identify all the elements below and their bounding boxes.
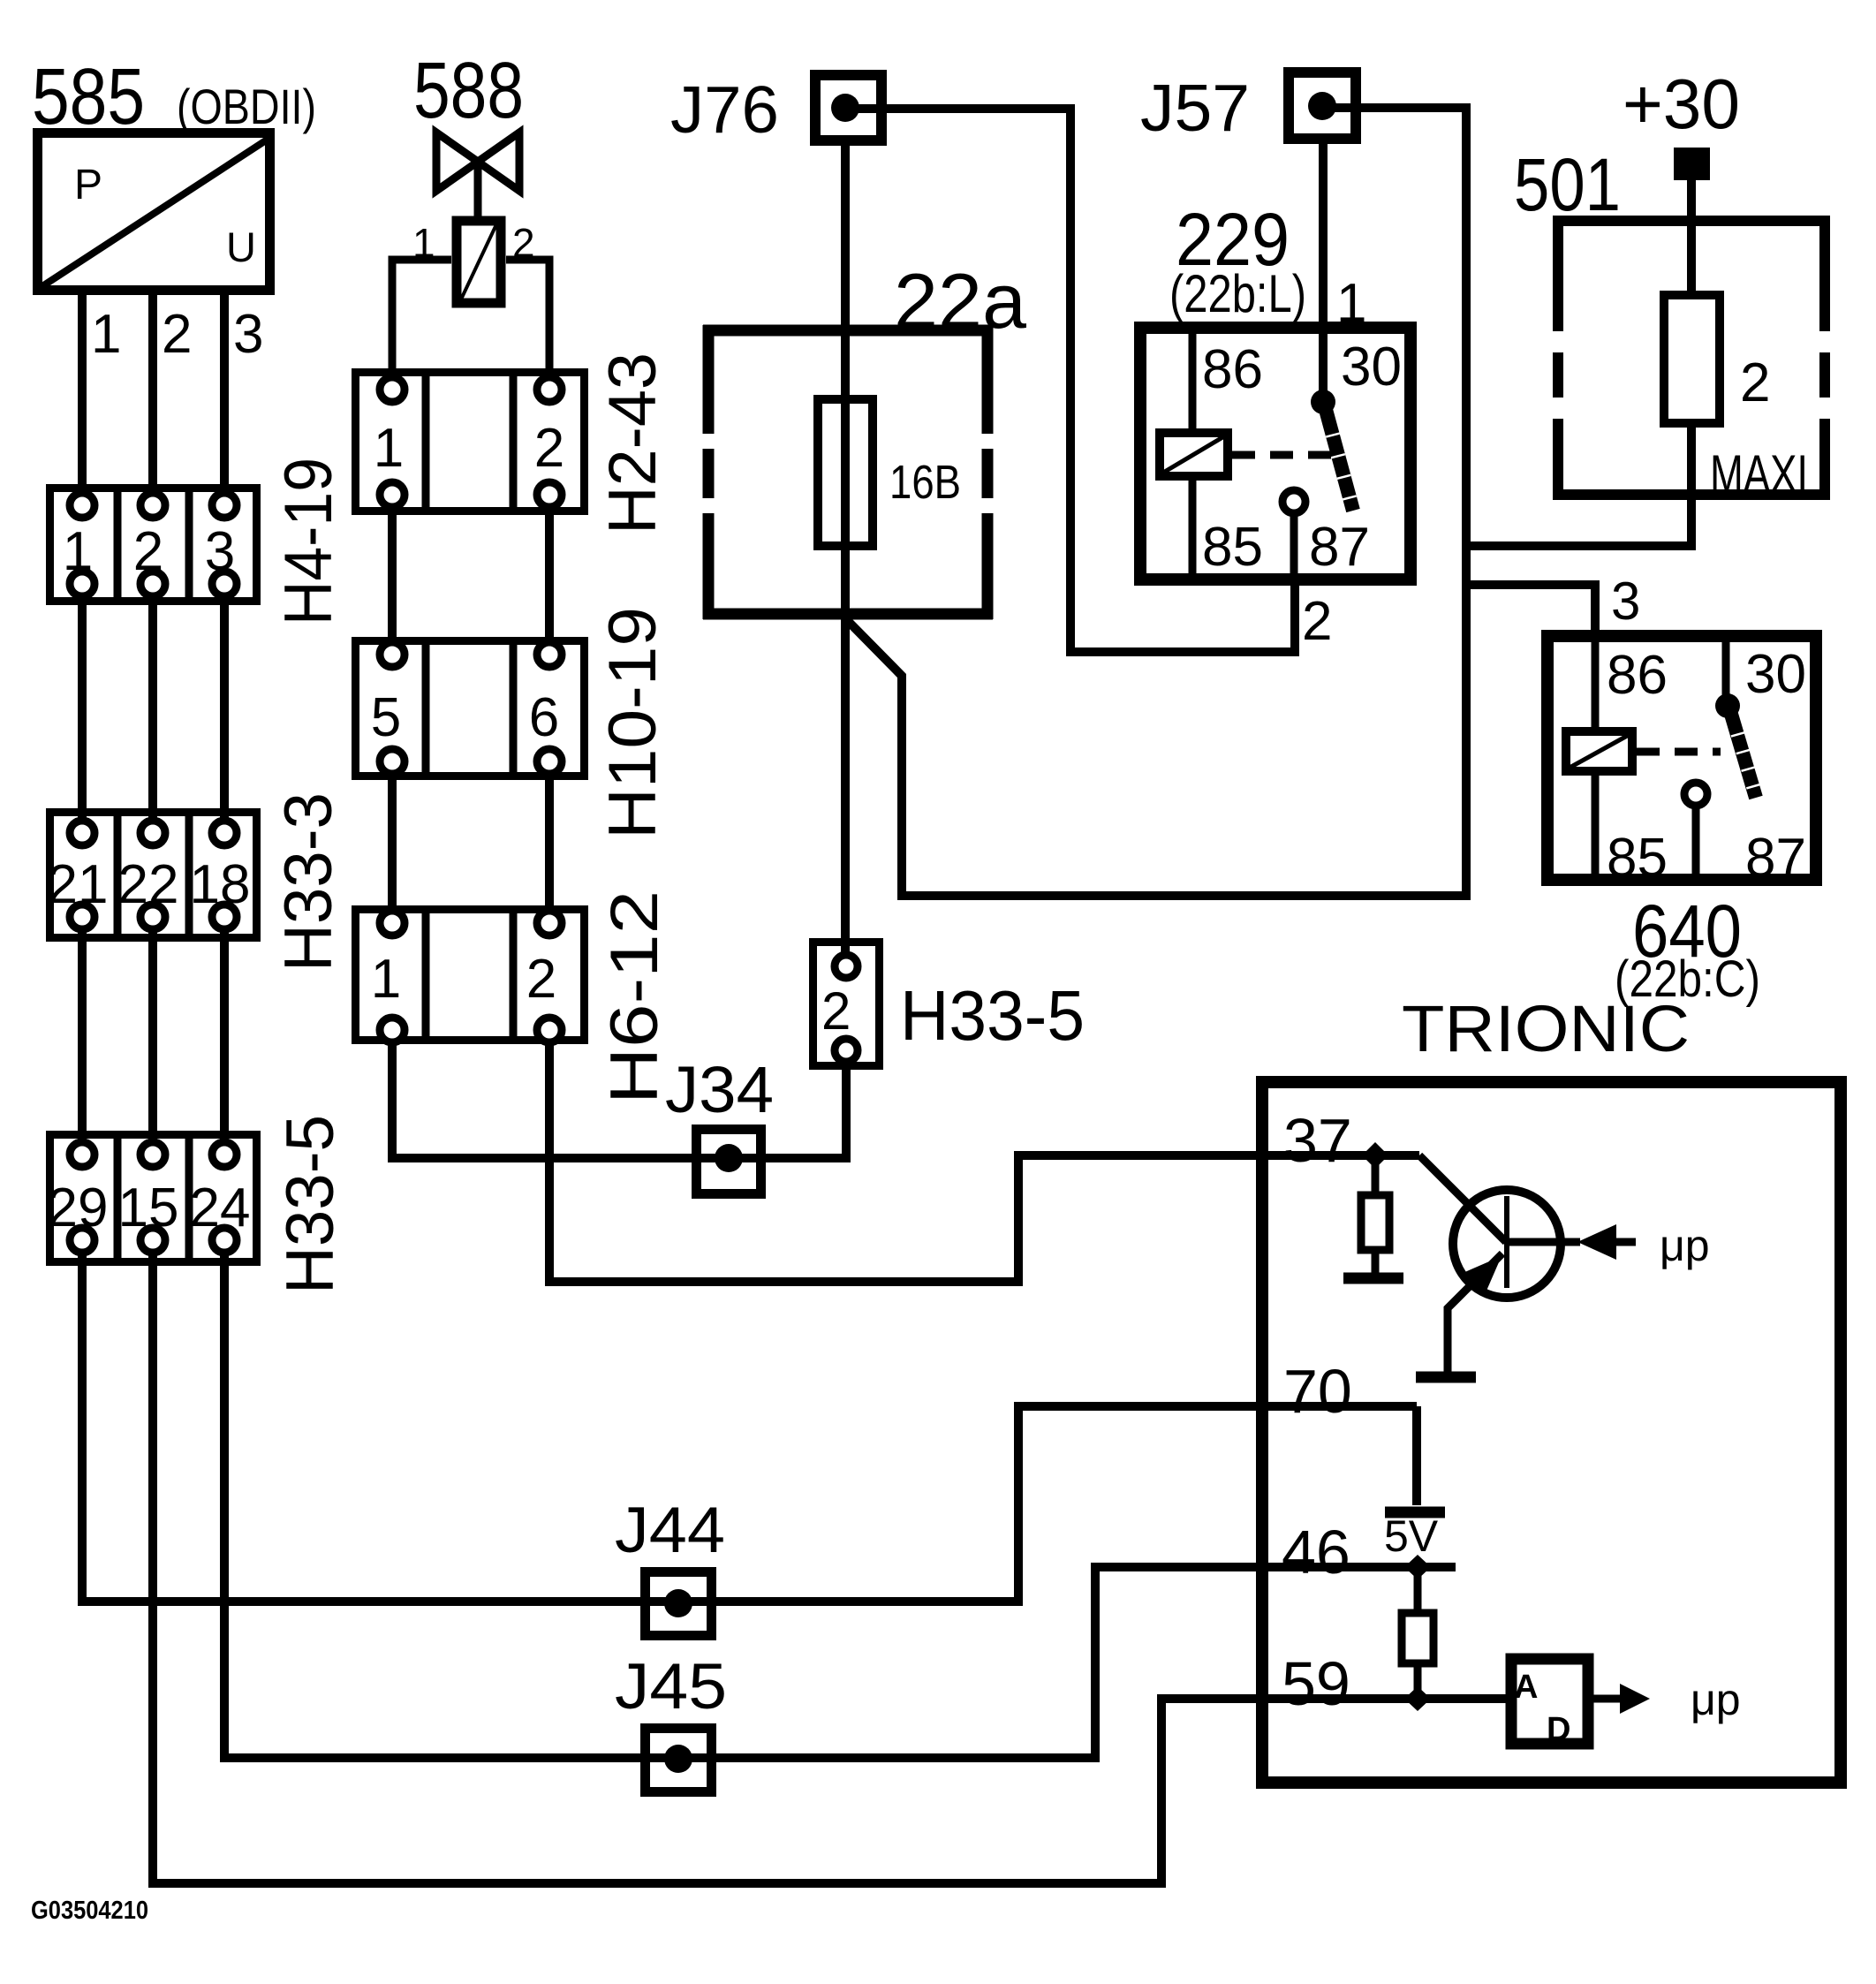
port circles H33-5 single xyxy=(835,955,858,1062)
resistor R1 (base pull) xyxy=(1361,1155,1389,1273)
svg-text:86: 86 xyxy=(1202,339,1263,400)
relay 229 coil wire 85 xyxy=(1189,476,1197,579)
svg-text:H4-19: H4-19 xyxy=(271,458,346,625)
svg-text:2: 2 xyxy=(526,949,556,1010)
connector H33-3 xyxy=(48,808,257,942)
junction J34 xyxy=(697,1130,761,1194)
relay 229 wire 87 to box edge xyxy=(1290,513,1298,579)
svg-text:87: 87 xyxy=(1745,828,1806,889)
port circles H6-12 xyxy=(380,911,562,1042)
svg-text:588: 588 xyxy=(413,47,524,135)
wire H4-19.1 to H33-3.21 xyxy=(78,584,87,833)
fuse holder 501 box xyxy=(1553,216,1830,500)
connector H6-12 xyxy=(356,905,585,1044)
transistor Q1 emitter wire with arrow xyxy=(1448,1253,1502,1372)
wire branch to fuse 501 xyxy=(1466,497,1691,546)
svg-text:30: 30 xyxy=(1745,644,1806,705)
resistor R2 (pullup to 5V) xyxy=(1402,1567,1433,1699)
solenoid valve 588 valve symbol xyxy=(436,133,519,221)
wire H6-12.2 to TRIONIC 37 xyxy=(549,1030,1419,1282)
relay 229 contact 30 xyxy=(1311,390,1335,414)
relay 640 box xyxy=(1547,636,1816,880)
wire branch to relay 640 pin 3 xyxy=(1466,585,1595,636)
wire H6-12.1 to J34 to H33-5.2 xyxy=(392,1030,846,1158)
svg-text:1: 1 xyxy=(374,418,404,479)
svg-text:H6-12: H6-12 xyxy=(597,890,672,1104)
wire fuse 501 down xyxy=(1687,423,1696,546)
wire J76 to relay 229 pin 87 xyxy=(845,109,1295,652)
junction J57 xyxy=(1289,72,1356,139)
svg-text:85: 85 xyxy=(1202,517,1263,578)
wire H2-43.2 to H10-19.6 xyxy=(545,495,554,655)
relay 229 coil wire 86 xyxy=(1189,328,1197,433)
connector H4-19 xyxy=(50,484,257,605)
port circles H33-3 xyxy=(70,821,237,929)
svg-text:87: 87 xyxy=(1309,517,1370,578)
ground (R1) xyxy=(1343,1273,1403,1284)
wire H2-43.1 to H10-19.5 xyxy=(388,495,397,655)
svg-text:2: 2 xyxy=(534,418,564,479)
wire 585 pin2 to H4-19 xyxy=(148,295,157,505)
svg-text:1: 1 xyxy=(91,304,121,365)
relay 640 switch feed 30 xyxy=(1722,636,1730,701)
fuse 16B element xyxy=(818,399,873,546)
svg-text:2: 2 xyxy=(1302,591,1332,652)
svg-text:μp: μp xyxy=(1660,1221,1710,1270)
junction J44 xyxy=(646,1572,712,1636)
wire H4-19.3 to H33-3.18 xyxy=(220,584,229,833)
relay 640 wire 87 to box edge xyxy=(1692,806,1700,880)
svg-text:5V: 5V xyxy=(1384,1511,1439,1561)
svg-text:H33-5: H33-5 xyxy=(900,976,1085,1055)
wire H10-19.6 to H6-12.2 xyxy=(545,761,554,923)
svg-text:5: 5 xyxy=(371,687,401,748)
relay 640 dashed actuator link xyxy=(1637,748,1721,756)
relay 229 switch arm xyxy=(1325,406,1357,511)
connector H10-19 xyxy=(356,637,585,780)
pressure sensor 585 body xyxy=(38,133,270,291)
A/D converter U1 xyxy=(1511,1659,1588,1748)
relay 229 contact 87 xyxy=(1282,490,1305,513)
wire H33-3.21 to H33-5.29 xyxy=(78,917,87,1155)
wire H33-3.22 to H33-5.15 xyxy=(148,917,157,1155)
svg-text:2: 2 xyxy=(1740,352,1770,413)
wire 59 to A/D xyxy=(1256,1694,1511,1703)
A/D output arrow to microprocessor xyxy=(1588,1684,1650,1714)
wire 588 pin1 to H2-43.1 xyxy=(392,260,451,390)
port circles H10-19 xyxy=(380,642,562,774)
svg-text:3: 3 xyxy=(1611,572,1640,631)
relay 229 dashed actuator link xyxy=(1232,451,1335,459)
relay 640 contact 30 xyxy=(1715,693,1740,718)
svg-text:G03504210: G03504210 xyxy=(31,1897,148,1925)
connector H33-5 (3-pole) xyxy=(48,1131,257,1266)
svg-text:P: P xyxy=(74,162,102,208)
ground (pin 70) xyxy=(1385,1507,1445,1518)
svg-text:86: 86 xyxy=(1607,645,1668,706)
svg-text:J45: J45 xyxy=(615,1651,727,1723)
wire H33-5.15 to TRIONIC 59 xyxy=(153,1240,1256,1883)
wire 588 pin2 to H2-43.2 xyxy=(506,260,549,390)
wire 585 pin3 to H4-19 xyxy=(220,295,229,505)
svg-text:H33-3: H33-3 xyxy=(271,792,346,972)
relay 229 coil xyxy=(1160,433,1228,476)
transistor Q1 xyxy=(1453,1190,1561,1298)
relay 640 contact 87 xyxy=(1684,783,1707,806)
wire J57 down to relay 229 pin 30 xyxy=(1319,134,1328,398)
svg-text:3: 3 xyxy=(233,304,263,365)
svg-text:H10-19: H10-19 xyxy=(595,607,670,839)
svg-text:H2-43: H2-43 xyxy=(595,352,670,534)
transistor Q1 base wire from microprocessor xyxy=(1507,1224,1636,1260)
svg-text:37: 37 xyxy=(1283,1106,1352,1175)
wire H33-5.24 to J45 to TRIONIC 46 xyxy=(224,1240,1256,1758)
relay 640 coil wire 86 xyxy=(1592,636,1600,731)
ECU TRIONIC box xyxy=(1262,1082,1841,1783)
svg-text:6: 6 xyxy=(529,687,559,748)
transistor Q1 collector wire xyxy=(1419,1155,1506,1242)
fuse holder 22a box xyxy=(703,325,993,619)
svg-text:J44: J44 xyxy=(615,1495,725,1566)
junction J45 xyxy=(646,1729,712,1792)
svg-text:U: U xyxy=(226,223,256,270)
svg-text:501: 501 xyxy=(1514,143,1621,226)
svg-text:30: 30 xyxy=(1341,337,1402,398)
wire H10-19.5 to H6-12.1 xyxy=(388,761,397,923)
svg-text:J57: J57 xyxy=(1140,71,1250,145)
svg-text:J76: J76 xyxy=(670,72,779,147)
svg-text:59: 59 xyxy=(1282,1649,1350,1718)
svg-text:70: 70 xyxy=(1283,1357,1352,1426)
wire 70 to ground xyxy=(1412,1406,1421,1505)
fuse 501 element xyxy=(1664,295,1720,423)
svg-text:H33-5: H33-5 xyxy=(273,1115,348,1294)
relay 640 coil xyxy=(1566,731,1632,771)
solenoid valve 588 coil xyxy=(457,221,501,303)
svg-text:(OBDII): (OBDII) xyxy=(177,79,316,134)
wire H33-3.18 to H33-5.24 xyxy=(220,917,229,1155)
svg-text:2: 2 xyxy=(821,981,851,1041)
wire H33-5.29 to J44 to TRIONIC 70 xyxy=(82,1240,1417,1602)
svg-text:MAXI: MAXI xyxy=(1710,444,1808,504)
node 59 junction xyxy=(1404,1686,1431,1711)
svg-text:16B: 16B xyxy=(889,456,961,509)
node 37 junction xyxy=(1362,1142,1388,1169)
wire J57 right and down to 22a branch xyxy=(846,108,1466,896)
port circles H33-5 xyxy=(70,1142,237,1253)
svg-text:1: 1 xyxy=(371,949,401,1010)
relay 640 switch arm xyxy=(1730,711,1760,798)
svg-text:TRIONIC: TRIONIC xyxy=(1402,992,1690,1065)
ground (Q1 emitter) xyxy=(1416,1372,1476,1383)
connector H33-5 pin 2 (single) xyxy=(813,943,880,1066)
wire J76 down through fuse 22a to H33-5.2 xyxy=(841,142,850,958)
svg-text:(22b:L): (22b:L) xyxy=(1169,264,1306,323)
svg-text:J34: J34 xyxy=(665,1053,774,1126)
relay 229 box xyxy=(1140,328,1411,579)
port circles H2-43 xyxy=(380,377,562,507)
wire 585 pin1 to H4-19 xyxy=(78,295,87,505)
svg-text:46: 46 xyxy=(1282,1518,1350,1586)
wire 46 5V stub xyxy=(1256,1563,1456,1571)
node 46 junction xyxy=(1404,1555,1431,1579)
svg-text:A: A xyxy=(1514,1669,1538,1706)
svg-text:85: 85 xyxy=(1607,828,1668,889)
wire H4-19.2 to H33-3.22 xyxy=(148,584,157,833)
wire +30 to fuse 501 xyxy=(1687,180,1696,297)
svg-text:μp: μp xyxy=(1691,1675,1741,1724)
junction J76 xyxy=(815,75,881,140)
svg-text:2: 2 xyxy=(162,304,192,365)
relay 640 coil wire 85 xyxy=(1592,771,1600,880)
svg-text:D: D xyxy=(1547,1711,1570,1748)
battery +30 terminal xyxy=(1674,148,1710,180)
port circles H4-19 xyxy=(70,493,237,596)
connector H2-43 xyxy=(356,368,585,515)
svg-text:+30: +30 xyxy=(1623,64,1740,143)
